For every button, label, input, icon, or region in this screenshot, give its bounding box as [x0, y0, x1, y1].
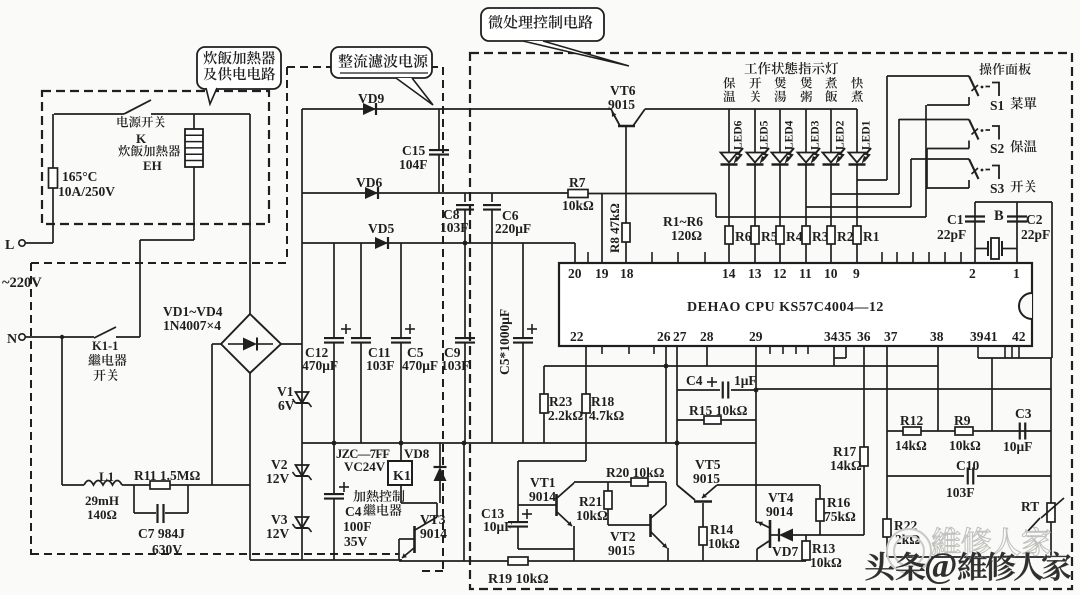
svg-text:103F: 103F — [366, 358, 395, 373]
svg-text:18: 18 — [620, 266, 634, 281]
svg-text:1: 1 — [1013, 266, 1020, 281]
svg-text:K1: K1 — [393, 469, 411, 484]
dashed box: heater & supply section — [42, 91, 269, 224]
wire: R12/R9/C3 net — [887, 430, 1051, 432]
svg-text:10A/250V: 10A/250V — [58, 184, 115, 199]
LED column labels — [723, 77, 735, 89]
svg-text:38: 38 — [930, 329, 944, 344]
svg-text:LED1: LED1 — [861, 120, 873, 150]
wire: v992 — [991, 358, 993, 431]
svg-text:VD5: VD5 — [368, 221, 394, 236]
svg-text:R2: R2 — [837, 229, 854, 244]
svg-text:120Ω: 120Ω — [671, 228, 702, 243]
svg-text:35V: 35V — [344, 534, 368, 549]
power switch K blade — [54, 113, 124, 115]
svg-text:VC24V: VC24V — [344, 459, 386, 474]
svg-text:LED4: LED4 — [784, 120, 796, 150]
svg-text:14kΩ: 14kΩ — [895, 438, 927, 453]
wire: EH bottom jog to relay switch — [140, 239, 194, 241]
svg-text:29mH: 29mH — [85, 493, 119, 508]
wire: pin29 column — [755, 346, 757, 522]
wire: N to relay switch — [25, 336, 94, 338]
capacitor C9 — [464, 243, 466, 337]
svg-text:13: 13 — [748, 266, 762, 281]
capacitor C7 loop — [133, 485, 135, 513]
wire: pin27 via C4/R15 — [676, 346, 678, 485]
resistor R11 — [122, 484, 150, 486]
zener V3 12V — [296, 517, 309, 528]
diode VD5 rail — [302, 242, 575, 244]
capacitor C1 22pF — [965, 215, 985, 217]
svg-text:1N4007×4: 1N4007×4 — [163, 318, 221, 333]
wire: bottom return to VT3 — [250, 559, 402, 561]
wire: crystal right down to pins 39-42 — [1051, 202, 1053, 358]
resistor R23 — [543, 366, 545, 394]
capacitor C2 22pF — [1007, 215, 1027, 217]
resistor R16 75k — [819, 485, 821, 499]
wire: pin20 feed — [574, 243, 576, 263]
wire: right column RT — [1050, 358, 1052, 503]
svg-text:140Ω: 140Ω — [87, 507, 117, 522]
svg-text:S1: S1 — [990, 98, 1005, 113]
heater EH element — [193, 114, 195, 129]
CPU top unconnected pin stubs — [587, 252, 589, 263]
svg-text:41: 41 — [984, 329, 998, 344]
wire: pins 39/41/42 rail — [977, 346, 979, 358]
svg-text:VT2: VT2 — [610, 529, 636, 544]
svg-text:RT: RT — [1021, 499, 1039, 514]
wire: bridge left to L1 column — [212, 343, 221, 345]
svg-text:9015: 9015 — [693, 471, 720, 486]
svg-text:R15 10kΩ: R15 10kΩ — [689, 403, 748, 418]
wire: 24V rail — [302, 442, 756, 444]
svg-text:9015: 9015 — [608, 543, 635, 558]
svg-text:26: 26 — [657, 329, 671, 344]
svg-text:14kΩ: 14kΩ — [830, 458, 862, 473]
wire: heater box right branch — [249, 114, 251, 314]
callout bubble: 微处理控制电路 — [481, 8, 604, 41]
wire: pin22/R18 — [585, 346, 587, 394]
svg-text:C15: C15 — [402, 143, 425, 158]
resistor R8 47k on pin18 — [625, 126, 627, 223]
svg-text:36: 36 — [857, 329, 871, 344]
diode VD9 rail — [302, 108, 611, 110]
svg-text:B: B — [994, 208, 1004, 224]
resistor R7 10k — [567, 193, 569, 194]
fuse FU 165C — [49, 168, 58, 188]
dashed box: rectifier-filter section — [287, 66, 443, 68]
svg-text:C5*1000μF: C5*1000μF — [497, 309, 512, 375]
svg-text:R11 1.5MΩ: R11 1.5MΩ — [134, 468, 200, 483]
wire: pin38 — [937, 346, 939, 431]
transistor VT5 9015 — [677, 485, 695, 500]
svg-text:R6: R6 — [735, 229, 752, 244]
transistor VT4 9014 — [769, 520, 772, 548]
CPU DEHAO KS57C4004-12 — [559, 263, 1032, 346]
capacitor C5 — [400, 243, 402, 337]
LED1 with resistor R1 — [856, 109, 858, 152]
crystal B — [975, 248, 988, 250]
svg-text:S2: S2 — [990, 141, 1005, 156]
svg-text:EH: EH — [143, 158, 162, 173]
LED3 with resistor R3 — [805, 109, 807, 152]
capacitor C15 — [438, 109, 440, 149]
svg-text:103F: 103F — [946, 485, 975, 500]
svg-text:L1: L1 — [99, 469, 114, 484]
wire: keys common column — [925, 105, 927, 217]
svg-text:@: @ — [924, 545, 958, 585]
switch S1 菜单 — [887, 75, 969, 77]
svg-text:470μF: 470μF — [302, 358, 338, 373]
capacitor C12 — [333, 243, 335, 337]
watermark ghost text 维修人家 — [932, 527, 961, 555]
svg-text:R17: R17 — [833, 444, 856, 459]
svg-text:R8 47kΩ: R8 47kΩ — [607, 203, 622, 253]
svg-text:103F: 103F — [441, 358, 470, 373]
svg-text:R13: R13 — [812, 541, 835, 556]
svg-text:R16: R16 — [827, 495, 850, 510]
svg-text:R9: R9 — [954, 413, 971, 428]
svg-text:4.7kΩ: 4.7kΩ — [589, 408, 624, 423]
svg-text:C3: C3 — [1015, 406, 1032, 421]
svg-text:VD8: VD8 — [404, 446, 430, 461]
LED5 with resistor R5 — [754, 109, 756, 152]
resistor R19 10k — [508, 557, 528, 565]
dashed boundary: supply section left/bottom — [31, 262, 287, 264]
wire: pin19 — [601, 194, 603, 264]
dashed box: microprocessor control section — [470, 53, 1072, 589]
svg-text:R7: R7 — [569, 175, 586, 190]
svg-text:165°C: 165°C — [62, 169, 97, 184]
wire: N branch horizontal — [62, 484, 84, 486]
wire: gnd column x464 — [463, 443, 465, 561]
capacitor C6 — [491, 193, 493, 202]
wire: R7 to keys common jog — [588, 193, 716, 195]
svg-text:LED5: LED5 — [759, 120, 771, 150]
wire: H388 net — [756, 388, 1051, 390]
svg-text:VT6: VT6 — [610, 83, 636, 98]
svg-text:R18: R18 — [591, 394, 614, 409]
svg-text:37: 37 — [884, 329, 898, 344]
svg-text:75kΩ: 75kΩ — [824, 509, 856, 524]
label 电源开关 K — [117, 116, 128, 127]
svg-text:9015: 9015 — [608, 97, 635, 112]
svg-text:11: 11 — [799, 266, 812, 281]
svg-text:VD9: VD9 — [358, 91, 384, 106]
callout bubble: 炊饭加热器及供电电路 — [197, 47, 281, 89]
capacitor C8 — [464, 193, 466, 202]
svg-text:K1-1: K1-1 — [92, 339, 118, 353]
wire: pins34/35 jog — [833, 346, 835, 358]
svg-text:K: K — [136, 131, 147, 146]
svg-text:34: 34 — [824, 329, 838, 344]
capacitor C4 1uF — [677, 389, 720, 391]
wire: bottom right rail — [887, 556, 1051, 558]
wire: pin28 stub — [706, 346, 708, 366]
label 工作状态指示灯 — [744, 63, 757, 73]
inductor L1 — [84, 481, 122, 486]
wire: pin37 column with R22 — [886, 346, 888, 519]
svg-text:VD6: VD6 — [356, 175, 382, 190]
wire: pin36/R17 column — [863, 346, 865, 447]
svg-text:V2: V2 — [271, 457, 288, 472]
wire: H366 net — [544, 365, 938, 367]
svg-text:39: 39 — [970, 329, 984, 344]
wire: L line up to fuse — [52, 114, 54, 168]
bridge rectifier VD1~VD4 — [221, 314, 281, 373]
svg-text:VD1~VD4: VD1~VD4 — [163, 304, 223, 319]
svg-text:470μF: 470μF — [402, 358, 438, 373]
label 加热控制 C4继电器 100F 35V — [353, 490, 365, 502]
wire: bridge right to power column — [281, 343, 302, 345]
capacitor C3 10uF — [1019, 423, 1021, 440]
svg-text:6V: 6V — [278, 398, 295, 413]
svg-text:20: 20 — [568, 266, 582, 281]
LED6 with resistor R6 — [728, 109, 730, 152]
svg-text:27: 27 — [673, 329, 687, 344]
svg-text:103F: 103F — [440, 220, 469, 235]
relay contact K1-1 blade — [94, 327, 116, 338]
svg-text:VD7: VD7 — [772, 544, 798, 559]
svg-text:10kΩ: 10kΩ — [562, 198, 594, 213]
wire: C13/R18 link — [518, 460, 586, 462]
resistor R14 10k — [702, 503, 704, 527]
svg-text:22: 22 — [570, 329, 584, 344]
svg-text:S3: S3 — [990, 181, 1005, 196]
svg-text:C2: C2 — [1026, 212, 1043, 227]
svg-text:R21: R21 — [579, 494, 602, 509]
svg-text:35: 35 — [838, 329, 852, 344]
wire: S3 top to LED3 — [910, 159, 912, 207]
wire: VT5 collector to VT4 base rail — [717, 484, 820, 486]
svg-text:~220V: ~220V — [2, 275, 42, 291]
svg-text:12V: 12V — [266, 526, 290, 541]
svg-text:R22: R22 — [894, 518, 917, 533]
svg-text:1μF: 1μF — [734, 373, 757, 388]
svg-text:10μF: 10μF — [483, 519, 512, 534]
svg-text:29: 29 — [749, 329, 763, 344]
transistor VT1 9014 — [518, 504, 556, 506]
svg-text:DEHAO CPU KS57C4004—12: DEHAO CPU KS57C4004—12 — [687, 300, 884, 315]
svg-text:9014: 9014 — [766, 504, 793, 519]
svg-text:R12: R12 — [900, 413, 923, 428]
svg-text:LED2: LED2 — [835, 120, 847, 150]
svg-text:V1: V1 — [277, 384, 294, 399]
resistor R20 10k — [574, 481, 631, 483]
terminal N — [19, 334, 25, 340]
svg-text:C4: C4 — [686, 373, 703, 388]
svg-text:42: 42 — [1012, 329, 1026, 344]
svg-text:22pF: 22pF — [1021, 227, 1050, 242]
capacitor C13 10uF — [517, 461, 519, 521]
svg-text:100F: 100F — [343, 519, 372, 534]
svg-text:LED3: LED3 — [810, 120, 822, 150]
svg-text:C1: C1 — [947, 212, 964, 227]
svg-text:10kΩ: 10kΩ — [576, 508, 608, 523]
transistor VT6 9015 — [618, 125, 635, 128]
wire: C10 net — [887, 475, 964, 477]
wire: S2 top to LED2 — [898, 119, 900, 194]
CPU bottom unconnected pin stubs — [601, 346, 603, 354]
operation panel label 操作面板 — [979, 63, 991, 75]
svg-text:10μF: 10μF — [1003, 439, 1032, 454]
svg-text:2.2kΩ: 2.2kΩ — [548, 408, 583, 423]
terminal L — [19, 240, 25, 246]
svg-text:R19 10kΩ: R19 10kΩ — [488, 572, 549, 587]
wire: main positive column — [301, 109, 303, 560]
watermark ghost logo — [887, 529, 931, 573]
svg-text:2: 2 — [969, 266, 976, 281]
svg-text:630V: 630V — [152, 542, 182, 557]
svg-text:10: 10 — [824, 266, 838, 281]
svg-text:VT5: VT5 — [695, 457, 721, 472]
switch S3 开关 — [911, 158, 969, 160]
svg-text:10kΩ: 10kΩ — [810, 555, 842, 570]
callout bubble: 整流滤波电源 — [331, 47, 432, 78]
svg-text:VT3: VT3 — [420, 512, 446, 527]
resistor R15 10k — [677, 419, 704, 421]
transistor VT2 9015 — [608, 524, 650, 526]
capacitor C11 — [360, 243, 362, 337]
label 炊饭加热器 EH — [118, 145, 130, 157]
svg-text:C7 984J: C7 984J — [138, 526, 185, 541]
svg-text:R1: R1 — [863, 229, 880, 244]
wire: LED anode rail — [645, 108, 857, 110]
diode VD6 rail — [302, 192, 568, 194]
switch S2 保温 — [899, 119, 969, 121]
svg-text:N: N — [7, 332, 17, 347]
svg-text:220μF: 220μF — [495, 221, 531, 236]
wire: crystal top rail — [975, 201, 1052, 203]
wire: S1 top to LED1 — [886, 76, 888, 180]
wire: N branch down — [61, 337, 63, 485]
zener V2 12V — [296, 465, 309, 476]
resistor R13 10k — [805, 535, 807, 541]
svg-text:22pF: 22pF — [937, 227, 966, 242]
LED2 with resistor R2 — [830, 109, 832, 152]
svg-text:L: L — [5, 238, 14, 253]
svg-text:C10: C10 — [956, 458, 979, 473]
svg-text:19: 19 — [595, 266, 609, 281]
svg-text:10kΩ: 10kΩ — [949, 438, 981, 453]
svg-text:R23: R23 — [549, 394, 572, 409]
zener V1 6V — [296, 392, 309, 403]
wire: pin26 — [665, 346, 667, 443]
svg-text:R14: R14 — [710, 522, 733, 537]
svg-text:C4: C4 — [345, 504, 362, 519]
relay coil K1 — [400, 443, 402, 461]
svg-text:R4: R4 — [786, 229, 803, 244]
svg-text:28: 28 — [700, 329, 714, 344]
svg-text:9: 9 — [853, 266, 860, 281]
svg-text:VT1: VT1 — [530, 475, 556, 490]
svg-text:V3: V3 — [271, 512, 288, 527]
capacitor C5*1000uF — [522, 243, 524, 337]
LED4 with resistor R4 — [779, 109, 781, 152]
wire: bridge bottom down — [249, 373, 251, 560]
transistor VT3 9014 — [436, 503, 438, 517]
svg-text:14: 14 — [722, 266, 736, 281]
diode VD7 — [770, 534, 779, 536]
capacitor C4 relay — [333, 443, 335, 493]
svg-text:10kΩ: 10kΩ — [708, 536, 740, 551]
svg-text:R1~R6: R1~R6 — [663, 214, 703, 229]
svg-text:VT4: VT4 — [768, 490, 794, 505]
wire: emitter rail to R19 — [399, 560, 806, 562]
svg-text:104F: 104F — [399, 157, 428, 172]
svg-text:9014: 9014 — [420, 526, 447, 541]
svg-text:12: 12 — [773, 266, 787, 281]
svg-text:LED6: LED6 — [733, 120, 745, 150]
svg-text:12V: 12V — [266, 471, 290, 486]
svg-text:9014: 9014 — [529, 489, 556, 504]
diode VD8 — [439, 443, 441, 466]
svg-text:R20 10kΩ: R20 10kΩ — [606, 465, 665, 480]
resistor R21 10k — [607, 482, 609, 491]
watermark text 头条@维修人家 — [865, 552, 894, 581]
